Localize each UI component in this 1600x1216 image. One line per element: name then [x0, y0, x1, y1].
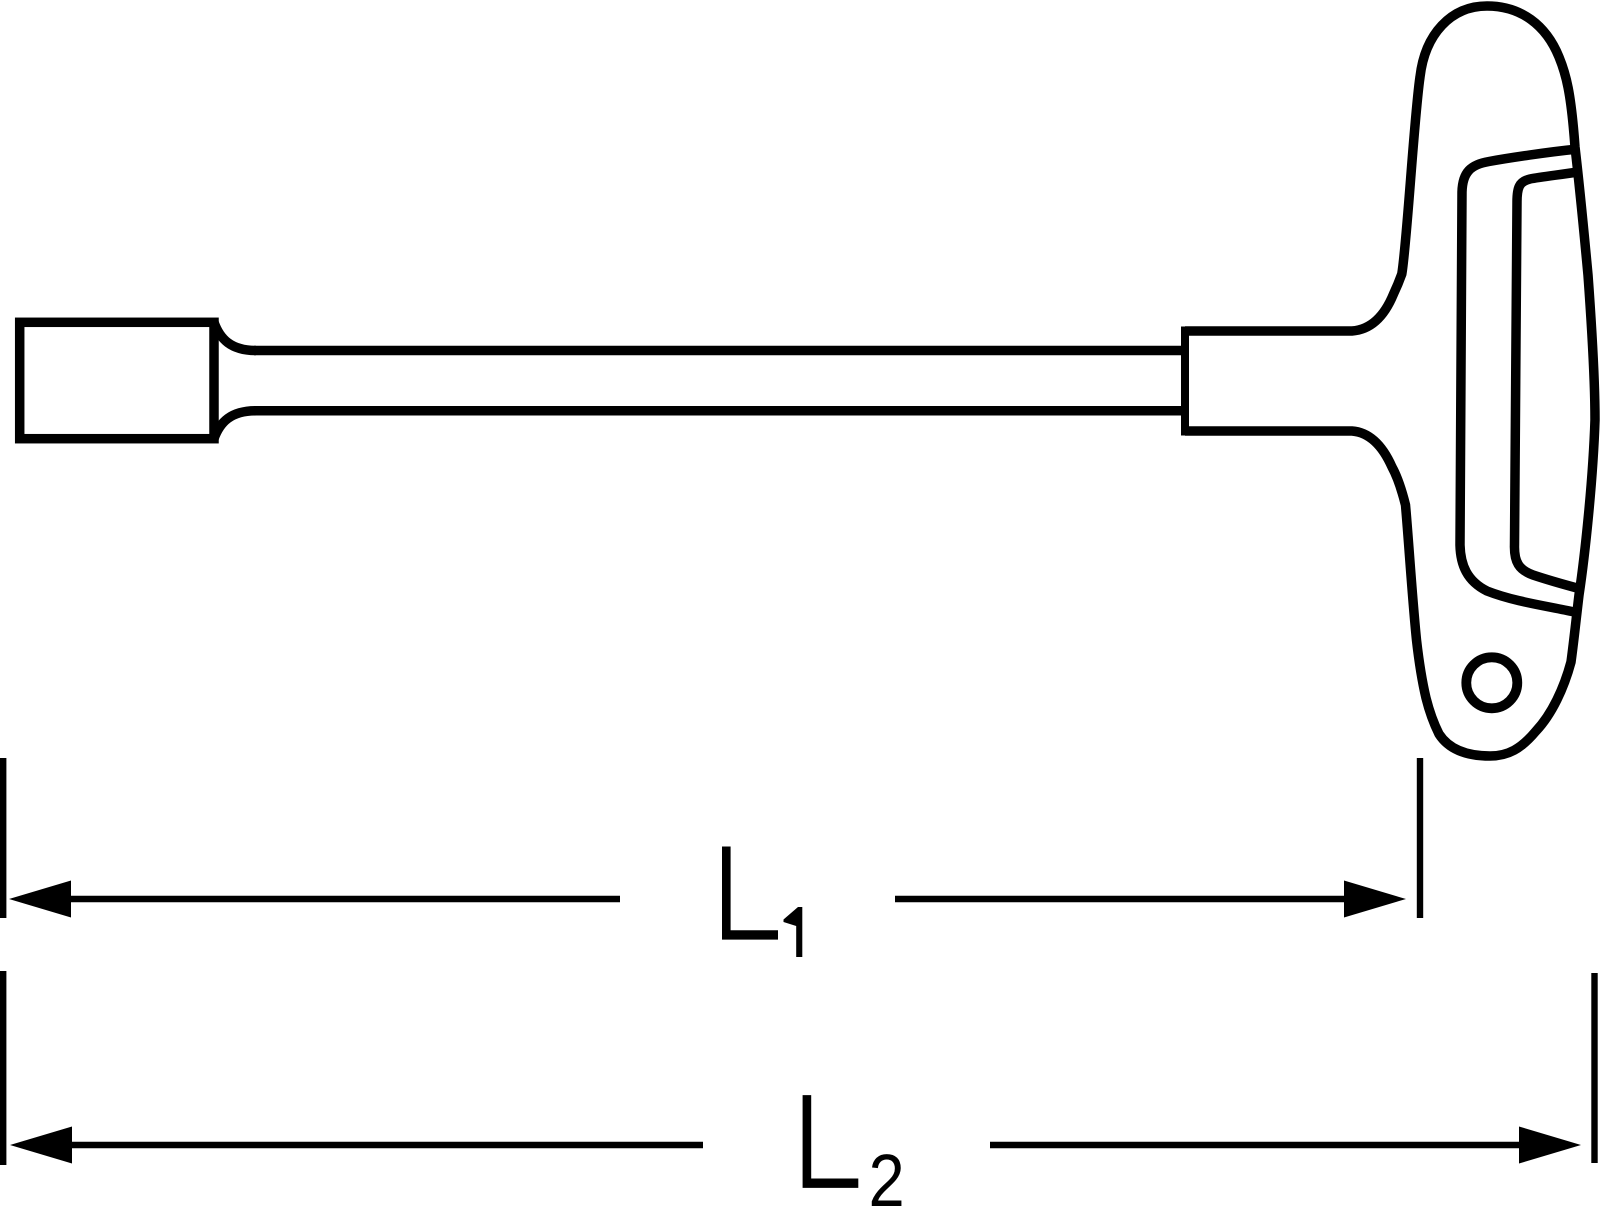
grip inlay outer line	[1460, 149, 1578, 612]
dimension L1 line right segment	[895, 896, 1350, 902]
handle outline	[1185, 6, 1595, 756]
dimension L2 extension tick left	[0, 971, 6, 1165]
dimension L2 line right segment	[990, 1142, 1520, 1148]
taper top	[214, 322, 256, 350]
shaft bottom line	[254, 406, 1185, 416]
socket head	[20, 322, 214, 438]
dimension L2 line left segment	[60, 1142, 703, 1148]
taper bottom	[214, 411, 256, 439]
dimension L2 extension tick right	[1591, 973, 1597, 1163]
arrowhead L2 right	[1519, 1127, 1581, 1164]
hanging hole	[1466, 657, 1517, 708]
arrowhead L2 left	[10, 1127, 72, 1164]
ferrule left edge	[1181, 327, 1189, 436]
label L2	[803, 1095, 859, 1188]
dimension L1 line left segment	[60, 896, 620, 902]
grip inlay inner line	[1514, 172, 1578, 588]
dimension L1 extension tick left	[0, 758, 6, 918]
arrowhead L1 right	[1344, 881, 1406, 918]
label L1	[722, 847, 802, 958]
dimension L1 extension tick right	[1417, 758, 1423, 918]
arrowhead L1 left	[9, 881, 71, 918]
svg-text:2: 2	[869, 1139, 905, 1216]
shaft top line	[254, 346, 1185, 356]
